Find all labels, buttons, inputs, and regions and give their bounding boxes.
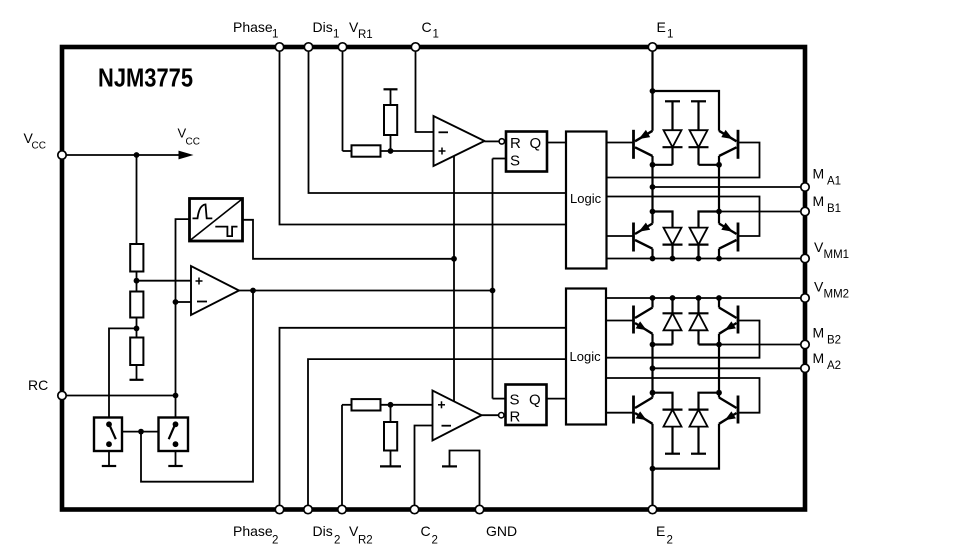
node D8 tap [716, 390, 722, 396]
label MA2 [813, 350, 842, 372]
label MB1 [813, 193, 842, 215]
label VMM2 [814, 279, 849, 301]
label Phase2 [233, 523, 278, 547]
wire FF2 Q to Logic2 [547, 398, 567, 400]
pin Phase2 [275, 505, 283, 513]
diode D5 [663, 298, 683, 345]
svg-text:Dis: Dis [313, 19, 333, 35]
wire Dis2 to Logic2 [308, 359, 566, 505]
resistor R4 [352, 145, 381, 156]
svg-text:A2: A2 [827, 360, 841, 372]
wire R3 to ground [136, 365, 138, 380]
wire ramp bus vertical [453, 156, 455, 401]
wire MB1 [719, 211, 801, 213]
IC body outline NJM3775 [62, 47, 805, 510]
wire D3 tap [653, 212, 673, 228]
svg-text:S: S [510, 153, 520, 170]
node E1 split [650, 88, 656, 94]
svg-text:1: 1 [433, 29, 439, 41]
wire VMM1 [607, 258, 801, 260]
pin RC [58, 391, 66, 399]
wire E2 to pin [651, 469, 653, 505]
svg-text:M: M [813, 166, 825, 182]
diode D2 rail tap [691, 101, 706, 130]
pin VR1 [338, 43, 346, 51]
inverter bubble FF2 R [499, 413, 504, 418]
wire switch link [122, 431, 159, 433]
svg-text:2: 2 [667, 535, 673, 547]
label VR1 [349, 19, 373, 41]
diode D7 [663, 410, 683, 454]
wire MA2 [653, 367, 801, 369]
diode D1 rail tap [665, 101, 680, 130]
svg-text:V: V [814, 239, 824, 255]
wire VR1 to resistor [343, 52, 352, 152]
wire Q8 base [606, 378, 760, 413]
svg-text:R: R [510, 409, 521, 426]
svg-text:V: V [814, 279, 824, 295]
svg-text:MM2: MM2 [824, 289, 850, 301]
node VR1 divider [388, 148, 394, 154]
wire VCC to divider [136, 155, 138, 244]
wire VMM2 [606, 297, 801, 299]
label VCC left [24, 130, 46, 152]
diode D8 [689, 410, 709, 454]
wire row E1a [653, 164, 673, 166]
pin MA1 [801, 183, 809, 191]
wire tap2 to left switch [109, 328, 137, 417]
node MA1 [650, 184, 656, 190]
comparator U3 [434, 116, 485, 166]
transistor Q2 [719, 130, 738, 159]
resistor R6 [352, 399, 381, 410]
ground divider [130, 379, 144, 381]
wire Dis1 to Logic1 [309, 52, 567, 194]
label C1 [422, 19, 439, 41]
wire MB2 [719, 344, 801, 346]
svg-text:R: R [510, 135, 521, 152]
node switch mid [138, 429, 144, 435]
svg-text:S: S [510, 392, 520, 409]
logic block 1 [566, 132, 607, 269]
inverter bubble FF1 R [499, 139, 504, 144]
transistor Q1 [634, 130, 653, 159]
wire Q7 base [606, 412, 634, 414]
wire Q2 base [607, 143, 760, 178]
wire D5 tap [653, 343, 673, 345]
wire RC [67, 395, 176, 397]
wire D6 tap [699, 343, 720, 345]
wire R5 to node [390, 135, 392, 151]
switch S2 [159, 418, 189, 452]
wire node to R7 [390, 405, 392, 422]
wire Phase1 to Logic1 [280, 52, 567, 225]
resistor R5 [384, 105, 397, 135]
svg-text:Phase: Phase [233, 523, 273, 539]
wire D7 tap [653, 393, 673, 410]
svg-text:MM1: MM1 [824, 249, 850, 261]
svg-text:C: C [422, 19, 432, 35]
wire E1 branch right [653, 91, 720, 131]
node E2 [650, 466, 656, 472]
wire GND [450, 451, 480, 506]
wire S1 input [493, 158, 507, 160]
label Dis2 [313, 523, 341, 547]
transistor Q6 [719, 306, 738, 334]
pin C1 [411, 43, 419, 51]
node VMM1 d [716, 256, 722, 262]
flip-flop FF2 [506, 385, 547, 426]
wire Q3 collector stub [651, 249, 653, 259]
transistor Q4 [719, 223, 738, 252]
wire tap1 to opamp plus [137, 280, 192, 282]
svg-text:Logic: Logic [570, 191, 602, 206]
svg-text:Phase: Phase [233, 19, 273, 35]
node opamp out [250, 288, 256, 294]
pin E2 [648, 505, 656, 513]
svg-text:Q: Q [529, 392, 541, 409]
svg-text:R2: R2 [358, 535, 373, 547]
svg-text:2: 2 [432, 535, 438, 547]
pin VMM2 [801, 294, 809, 302]
svg-text:C: C [421, 523, 431, 539]
transistor Q3 [634, 223, 653, 252]
label Phase1 [233, 19, 278, 41]
wire S2 input [493, 398, 506, 400]
wire Q5 base [606, 320, 634, 322]
node VMM2 d [716, 295, 722, 301]
label Dis1 [313, 19, 340, 41]
node MB2 [716, 342, 722, 348]
svg-text:M: M [813, 193, 825, 209]
flip-flop FF1 [506, 132, 547, 172]
wire comparator1 out [485, 140, 500, 142]
ground S1 [102, 451, 116, 466]
svg-text:R1: R1 [358, 29, 373, 41]
node ramp join [451, 256, 457, 262]
wire Q4 collector stub [718, 249, 720, 259]
resistor R7 [384, 422, 397, 451]
svg-text:E: E [656, 523, 665, 539]
diode D3 [663, 228, 683, 259]
wire VR2 to resistor [342, 405, 352, 505]
wire D8 tap [699, 393, 720, 410]
svg-text:1: 1 [272, 29, 278, 41]
label E2 [656, 523, 673, 547]
svg-text:M: M [813, 350, 825, 366]
wire Q7 emitter to E2 [651, 424, 653, 469]
wire Q5 emitter node [651, 334, 653, 398]
logic block 2 [566, 289, 606, 425]
label C2 [421, 523, 438, 547]
label NJM3775 [98, 63, 193, 93]
node D7 tap [650, 390, 656, 396]
wire VCC arrow [67, 151, 194, 160]
transistor Q5 [634, 306, 653, 334]
wire FF1 Q to Logic1 [547, 142, 566, 144]
node Q1 collector [650, 162, 656, 168]
wire row E1b [699, 164, 720, 166]
pin MB1 [801, 207, 809, 215]
node D3 tap [650, 209, 656, 215]
wire comparator2 out [482, 414, 499, 416]
svg-text:1: 1 [333, 29, 339, 41]
svg-text:Logic: Logic [570, 349, 602, 364]
wire phase bus vertical [492, 159, 494, 399]
svg-text:Dis: Dis [313, 523, 333, 539]
svg-text:1: 1 [667, 29, 673, 41]
wire R1 to R2 [136, 272, 138, 292]
wire D4 tap [699, 212, 720, 228]
svg-text:B2: B2 [827, 335, 841, 347]
wire Phase2 to Logic2 [280, 328, 567, 505]
supply rail tap 1 [384, 89, 398, 105]
svg-text:GND: GND [486, 523, 517, 539]
wire C2 to minus2 [415, 426, 433, 506]
comparator U4 [433, 391, 482, 441]
wire MA1 [653, 186, 801, 188]
svg-text:CC: CC [32, 141, 46, 152]
svg-text:2: 2 [272, 535, 278, 547]
resistor R1 [130, 244, 143, 272]
diode D6 [689, 298, 709, 345]
pin Dis2 [304, 505, 312, 513]
wire R6 to plus2 [381, 404, 433, 406]
wire oscillator left lead [176, 219, 190, 417]
pin MA2 [801, 364, 809, 372]
node minus tap [173, 299, 179, 305]
wire feedback to switches [141, 291, 253, 482]
label VCC internal [178, 126, 200, 148]
node VMM2 c [696, 295, 702, 301]
switch S1 [94, 418, 122, 452]
pin C2 [410, 505, 418, 513]
wire Q3 base [607, 235, 634, 237]
pin E1 [648, 43, 656, 51]
wire minus tap to opamp [176, 301, 192, 303]
diode D4 [689, 228, 709, 259]
wire oscillator right to ramp bus [243, 220, 455, 259]
label RC [28, 377, 48, 393]
op-amp U2 [191, 266, 239, 315]
svg-text:Q: Q [530, 135, 542, 152]
wire opamp output bus [239, 290, 493, 292]
diode D1 [663, 130, 683, 165]
node VCC junction [134, 152, 140, 158]
node Q2 collector [716, 162, 722, 168]
ground R7 [380, 451, 401, 467]
svg-text:E: E [657, 19, 666, 35]
wire Q1 collector node [651, 156, 653, 224]
label E1 [657, 19, 674, 41]
node MB2 left [650, 342, 656, 348]
node RC junction [173, 393, 179, 399]
label MB2 [813, 325, 842, 347]
svg-text:M: M [813, 325, 825, 341]
pin VMM1 [801, 254, 809, 262]
pin Dis1 [304, 43, 312, 51]
node divider tap 2 [134, 326, 140, 332]
wire Q6 collector stub [718, 298, 720, 308]
node VMM1 a [650, 256, 656, 262]
ground symbol GND [442, 465, 457, 467]
svg-text:A1: A1 [827, 176, 841, 188]
svg-text:CC: CC [186, 137, 200, 148]
node divider tap 1 [134, 278, 140, 284]
wire C1 to minus1 [416, 52, 434, 133]
ground S2 [168, 451, 182, 466]
wire Q6 base [606, 321, 760, 358]
label VR2 [349, 523, 373, 547]
wire R2 to R3 [136, 318, 138, 338]
wire Q2 collector node [718, 156, 720, 224]
node VR2 divider [388, 402, 394, 408]
node VMM2 a [650, 295, 656, 301]
resistor R3 [130, 338, 143, 366]
wire R4 to plus1 [381, 150, 434, 152]
label VMM1 [814, 239, 849, 261]
wire Q1 base [607, 142, 634, 144]
diode D2 [689, 130, 709, 165]
node MB1 [716, 209, 722, 215]
svg-text:B1: B1 [827, 203, 841, 215]
svg-text:NJM3775: NJM3775 [98, 63, 193, 93]
wire Q6 emitter node [718, 334, 720, 398]
label GND [486, 523, 517, 539]
node MA2 [650, 365, 656, 371]
wire Q4 base [607, 197, 760, 237]
pin GND [475, 505, 483, 513]
svg-text:RC: RC [28, 377, 48, 393]
wire Q5 collector stub [651, 298, 653, 308]
node VMM1 c [696, 256, 702, 262]
pin Phase1 [275, 43, 283, 51]
node VMM1 b [670, 256, 676, 262]
resistor R2 [130, 292, 143, 318]
label MA1 [813, 166, 842, 188]
node VMM2 b [670, 295, 676, 301]
node phase bus join [490, 288, 496, 294]
transistor Q7 [634, 396, 653, 424]
oscillator block U1 [190, 199, 243, 242]
pin MB2 [801, 340, 809, 348]
pin VR2 [338, 505, 346, 513]
wire E2 branch right [653, 424, 720, 469]
pin VCC [58, 151, 66, 159]
transistor Q8 [719, 396, 738, 424]
svg-text:2: 2 [334, 535, 340, 547]
wire E1 down [651, 52, 653, 131]
